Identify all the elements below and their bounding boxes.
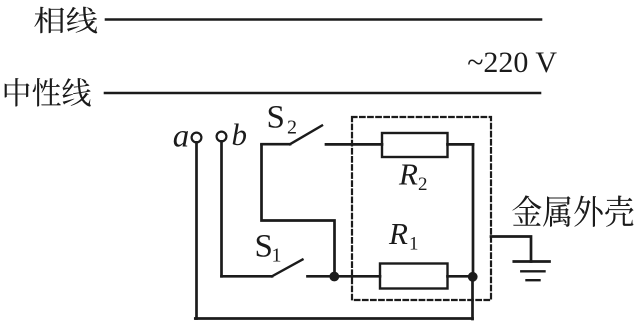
label R1 bbox=[388, 216, 419, 255]
svg-text:R: R bbox=[398, 157, 418, 192]
ground symbol bbox=[514, 262, 550, 281]
wire live line (相线) bbox=[106, 18, 541, 21]
svg-text:S: S bbox=[267, 100, 285, 136]
svg-text:S: S bbox=[255, 229, 273, 265]
node junction dot at R1 right bbox=[468, 272, 478, 282]
wire bottom rail bbox=[195, 317, 472, 320]
svg-text:2: 2 bbox=[418, 174, 428, 195]
label 金属外壳 (metal case) bbox=[512, 195, 633, 227]
svg-text:2: 2 bbox=[287, 117, 297, 139]
wire case to ground bbox=[491, 237, 531, 262]
resistor R1 bbox=[380, 264, 448, 289]
wire neutral line (中性线) bbox=[105, 92, 540, 95]
wire from terminal b down to switch S1 bbox=[220, 141, 223, 276]
svg-text:~220 V: ~220 V bbox=[467, 46, 557, 79]
wire right riser from R2 down to R1 node bbox=[472, 144, 475, 276]
switch S2 bbox=[262, 126, 323, 145]
label 中性线 (neutral wire) bbox=[5, 78, 91, 107]
enclosure dashed metal case boundary bbox=[352, 117, 491, 300]
node a terminal bbox=[173, 119, 202, 155]
wire switch S2 to resistor R2 bbox=[326, 143, 382, 146]
wire resistor R1 to junction node bbox=[448, 275, 474, 278]
wire from terminal a down to bottom rail bbox=[195, 142, 198, 318]
wire junction dot to resistor R1 bbox=[335, 275, 380, 278]
wire resistor R2 to right riser bbox=[448, 143, 474, 146]
svg-text:b: b bbox=[232, 117, 248, 152]
wire step link from S2 left down to S1 junction bbox=[262, 145, 335, 276]
resistor R2 bbox=[382, 133, 448, 157]
switch S1 bbox=[222, 260, 336, 277]
label S2 bbox=[267, 100, 298, 139]
svg-text:a: a bbox=[173, 119, 190, 155]
wire right riser from bottom rail to node dot bbox=[471, 276, 474, 319]
label R2 bbox=[398, 157, 428, 196]
label 相线 (live wire) bbox=[34, 7, 97, 34]
node b terminal bbox=[217, 117, 247, 152]
svg-text:1: 1 bbox=[409, 234, 419, 255]
node junction dot at S1 output bbox=[329, 272, 339, 282]
svg-text:R: R bbox=[388, 216, 408, 251]
label S1 bbox=[255, 229, 282, 267]
svg-text:1: 1 bbox=[272, 245, 282, 267]
